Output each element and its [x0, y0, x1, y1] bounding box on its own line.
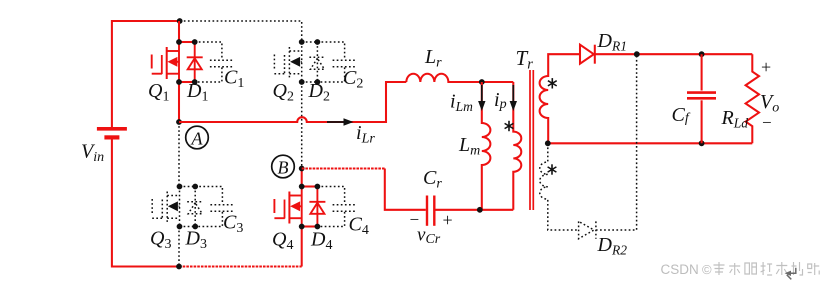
arrow ip: [510, 85, 517, 111]
wire links Q2 cell: [302, 42, 318, 82]
junction node Cf bottom: [699, 140, 705, 146]
svg-text:C1: C1: [224, 67, 244, 92]
svg-text:RLd: RLd: [721, 107, 749, 131]
transistor Q3: [152, 187, 179, 227]
svg-text:D3: D3: [185, 228, 207, 253]
svg-text:Q1: Q1: [148, 80, 169, 105]
diode D1: [187, 42, 203, 82]
transistor Q2: [274, 42, 301, 82]
svg-text:vCr: vCr: [417, 225, 441, 248]
watermark chinese glyphs: [714, 262, 820, 275]
wire node B to Q4 drain: [301, 169, 303, 187]
wire links Q1 cell: [179, 42, 195, 82]
wire Q2 source to node B dotted: [301, 82, 303, 169]
wire DR1 to load top: [595, 53, 753, 55]
svg-text:C4: C4: [349, 214, 369, 239]
wire Lr junction to primary top: [482, 81, 514, 83]
node B junction: [299, 166, 305, 172]
dot mark primary: [505, 121, 514, 131]
junction node bottom rail Q3 leg: [176, 264, 182, 270]
svg-text:Vo: Vo: [760, 91, 779, 116]
svg-text:Vin: Vin: [81, 141, 104, 166]
junction node DR2 riser: [634, 51, 640, 57]
svg-text:Cr: Cr: [423, 167, 442, 192]
svg-text:iLr: iLr: [356, 122, 375, 147]
svg-text:Q2: Q2: [273, 80, 294, 105]
capacitor Cf: [687, 54, 716, 143]
battery Vin: [97, 129, 127, 138]
capacitor C2: [317, 42, 356, 82]
node A junction: [176, 119, 182, 125]
node B circle: [272, 155, 295, 178]
transformer secondary top winding: [540, 54, 580, 143]
arrow iLm: [478, 85, 485, 111]
transformer core Tr: [530, 70, 533, 210]
svg-text:Cf: Cf: [672, 104, 691, 126]
wire Cr to Lm junction: [436, 209, 480, 211]
svg-text:Tr: Tr: [516, 46, 534, 73]
wire center tap to load bottom: [548, 142, 753, 144]
wire links Q3 cell: [180, 187, 196, 227]
wire node B fine-dashed: [302, 167, 385, 169]
capacitor C4: [317, 187, 356, 227]
svg-text:−: −: [762, 113, 772, 132]
wire DR2 to riser dotted: [596, 54, 637, 230]
diode D4: [309, 187, 325, 227]
diode D2: [309, 42, 325, 82]
transistor Q4: [274, 187, 301, 227]
arrow iLr: [327, 118, 354, 125]
wire battery negative to bottom rail: [112, 139, 179, 267]
transformer primary winding: [513, 82, 521, 210]
wire Q4 source to bottom rail: [301, 227, 303, 267]
wire node A to Lr with hop: [179, 82, 406, 122]
dot mark secondary top: [548, 78, 557, 88]
wire primary bottom: [480, 209, 514, 211]
wire links Q4 cell: [302, 187, 318, 227]
resistor RLd: [746, 54, 759, 143]
svg-text:D1: D1: [186, 80, 208, 105]
junction node center tap: [545, 140, 551, 146]
capacitor C3: [195, 187, 234, 227]
junction dots Q4 cell: [299, 184, 320, 230]
svg-text:D4: D4: [310, 229, 332, 254]
svg-text:Q3: Q3: [150, 228, 171, 253]
svg-text:C3: C3: [223, 212, 243, 237]
inductor Lm: [482, 82, 491, 210]
wire top rail to Q1 drain: [178, 21, 180, 42]
wire Q3 source to bottom rail dotted: [178, 227, 180, 267]
svg-text:B: B: [278, 158, 289, 178]
diode D3: [187, 187, 203, 227]
svg-text:iLm: iLm: [450, 91, 473, 115]
wire top rail dotted: [180, 21, 302, 42]
svg-text:DR1: DR1: [597, 30, 627, 54]
diode DR1: [580, 45, 595, 64]
junction node Cf top: [699, 51, 705, 57]
diode DR2 dotted: [579, 221, 596, 238]
capacitor C1: [195, 42, 234, 82]
svg-text:Q4: Q4: [272, 229, 293, 254]
wire top rail red: [112, 21, 180, 128]
wire bottom rail fine-dashed: [179, 265, 302, 267]
inductor Lr: [406, 74, 482, 82]
node A circle: [186, 126, 209, 149]
junction node top rail: [177, 18, 183, 24]
wire Q1 source to node A: [178, 82, 180, 122]
dot mark secondary bottom: [548, 164, 557, 174]
svg-text:+: +: [761, 57, 771, 77]
svg-text:D2: D2: [308, 80, 330, 105]
junction dots Q2 cell: [299, 39, 320, 85]
transformer secondary bottom winding dotted: [540, 143, 579, 230]
svg-text:CSDN: CSDN: [661, 262, 699, 277]
wire to Cr: [385, 169, 426, 210]
svg-text:Lm: Lm: [458, 134, 480, 159]
junction node Lr/Lm: [479, 79, 485, 85]
svg-text:Lr: Lr: [424, 46, 442, 71]
svg-text:+: +: [443, 210, 453, 230]
wire node A to Q3 dotted: [178, 122, 180, 187]
svg-text:DR2: DR2: [597, 234, 628, 258]
svg-text:©: ©: [702, 262, 712, 277]
svg-text:ip: ip: [494, 89, 507, 112]
junction node Cr/Lm/primary: [477, 207, 483, 213]
svg-text:A: A: [191, 129, 204, 149]
transistor Q1: [152, 42, 179, 82]
capacitor Cr: [427, 196, 434, 226]
junction dots Q1 cell: [176, 39, 198, 85]
watermark cursor arrow: [785, 268, 796, 280]
svg-text:C2: C2: [343, 67, 363, 92]
junction dots Q3 cell: [177, 184, 199, 230]
